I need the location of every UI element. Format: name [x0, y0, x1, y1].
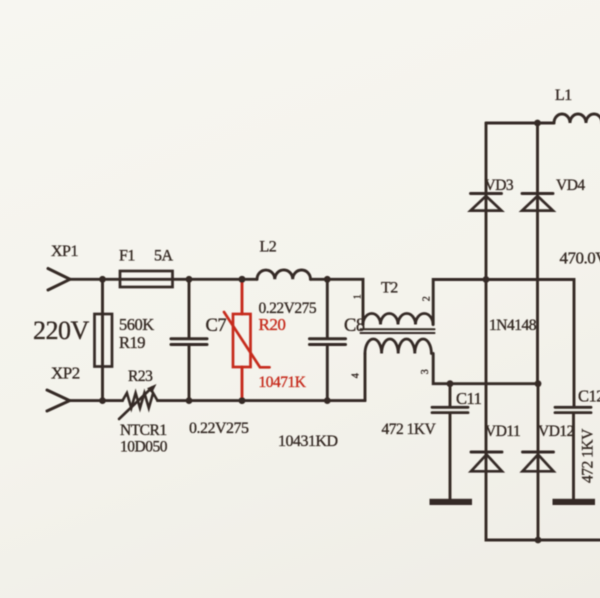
node junction bottom-left [99, 397, 106, 404]
svg-text:L1: L1 [555, 87, 572, 104]
thermistor R23 [119, 388, 158, 420]
label C12 [578, 387, 600, 406]
inductor L1 [554, 114, 600, 123]
varistor R20 [224, 279, 270, 400]
diode VD12 [523, 452, 554, 471]
capacitor C12 [555, 407, 591, 499]
node junction VD4 bottom [535, 380, 542, 387]
diode VD3 [471, 194, 502, 211]
label C11 [456, 389, 482, 408]
label XP1 [51, 243, 78, 260]
svg-text:0.22V275: 0.22V275 [189, 420, 249, 437]
node junction bottom rail [535, 537, 542, 544]
svg-text:L2: L2 [260, 239, 277, 256]
wire T2 pin3 output [433, 354, 538, 384]
svg-text:R23: R23 [128, 368, 153, 385]
ground C11 [430, 499, 473, 505]
label C8 [344, 316, 365, 336]
wire T2 pin2 output rail [433, 280, 574, 407]
wire top rail to T2 [311, 279, 364, 324]
capacitor C8 [310, 279, 346, 400]
label 470.0V [560, 249, 600, 268]
label R23 [128, 368, 153, 385]
label 10431KD [278, 433, 338, 450]
svg-text:XP1: XP1 [51, 243, 78, 260]
svg-text:4: 4 [350, 373, 361, 378]
svg-text:472 1KV: 472 1KV [382, 421, 437, 438]
node junction top R20 [239, 276, 246, 283]
label 0.22V275 top [259, 300, 317, 317]
label 472 1KV vertical [580, 428, 597, 483]
label VD4 [556, 177, 585, 194]
node junction top C8 [324, 276, 331, 283]
wire bottom rail mid [158, 399, 366, 402]
label T2 [381, 280, 398, 297]
capacitor C7 [171, 279, 207, 400]
svg-text:R19: R19 [119, 333, 145, 352]
label 1N4148 [489, 317, 537, 334]
svg-text:10471K: 10471K [259, 374, 307, 391]
diode VD4 [522, 194, 553, 211]
label VD11 [485, 423, 520, 440]
svg-text:220V: 220V [33, 316, 90, 345]
label 220V [33, 316, 90, 345]
label 560K [119, 315, 154, 334]
node junction top-left [99, 276, 106, 283]
transformer T2 [361, 314, 435, 354]
svg-text:2: 2 [421, 296, 432, 301]
svg-text:10D050: 10D050 [120, 439, 168, 456]
wire bottom rail left [70, 399, 123, 402]
fuse F1 [120, 271, 173, 287]
svg-text:VD11: VD11 [485, 423, 520, 440]
node junction C11 top [447, 380, 454, 387]
node junction dot over R20 bottom [239, 397, 246, 404]
svg-text:470.0V: 470.0V [560, 249, 600, 268]
label 472 1KV left [382, 421, 437, 438]
arrowhead R23 [147, 384, 156, 393]
label 10D050 [120, 439, 168, 456]
label R19 [119, 333, 145, 352]
label L1 [555, 87, 572, 104]
diode VD11 [471, 452, 502, 471]
pin 1 [352, 294, 363, 299]
pin 4 [350, 373, 361, 378]
pin 3 [420, 369, 431, 374]
wire VD12 branch [537, 384, 540, 540]
svg-text:10431KD: 10431KD [278, 433, 338, 450]
capacitor C11 [432, 384, 468, 499]
wire L1 top rail [486, 122, 554, 125]
svg-text:C7: C7 [206, 316, 227, 336]
wire top rail left [70, 278, 257, 281]
wire R19 branch [101, 279, 104, 400]
wire VD4 branch [536, 123, 539, 384]
svg-text:T2: T2 [381, 280, 398, 297]
svg-text:VD4: VD4 [556, 177, 585, 194]
node junction dot over R20 top [239, 276, 246, 283]
label VD12 [538, 423, 574, 440]
svg-text:C12: C12 [578, 387, 600, 406]
svg-text:472 1KV: 472 1KV [580, 428, 597, 483]
wire T2 pin4 to bottom rail [364, 354, 367, 401]
wire VD3 branch [486, 123, 600, 540]
node junction bottom C7 [186, 397, 193, 404]
label L2 [260, 239, 277, 256]
pin 2 [421, 296, 432, 301]
connector XP1 [48, 269, 70, 291]
connector XP2 [47, 390, 70, 411]
label F1 [119, 248, 135, 265]
node junction top C7 [186, 276, 193, 283]
svg-text:NTCR1: NTCR1 [120, 422, 167, 439]
inductor L2 [257, 270, 311, 279]
svg-text:5A: 5A [154, 248, 174, 265]
svg-text:XP2: XP2 [51, 364, 80, 383]
svg-text:C11: C11 [456, 389, 482, 408]
label NTCR1 [120, 422, 167, 439]
label XP2 [51, 364, 80, 383]
svg-text:1: 1 [352, 294, 363, 299]
node junction L1 [534, 120, 541, 127]
label 10471K [259, 374, 307, 391]
svg-text:1N4148: 1N4148 [489, 317, 537, 334]
svg-text:560K: 560K [119, 315, 154, 334]
svg-text:VD3: VD3 [485, 177, 514, 194]
svg-text:F1: F1 [119, 248, 135, 265]
ground C12 [553, 499, 596, 505]
svg-text:VD12: VD12 [538, 423, 574, 440]
label 0.22V275 bottom [189, 420, 249, 437]
node junction bottom C8 [324, 397, 331, 404]
label 5A [154, 248, 174, 265]
label R20 [259, 315, 286, 334]
label C7 [206, 316, 227, 336]
svg-text:R20: R20 [259, 315, 286, 334]
node junction bottom R20 [239, 397, 246, 404]
svg-text:3: 3 [420, 369, 431, 374]
resistor R19 [95, 314, 113, 367]
node junction rail VD3 [483, 276, 490, 283]
label VD3 [485, 177, 514, 194]
